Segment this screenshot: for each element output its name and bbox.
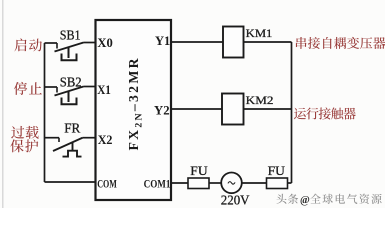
svg-text:KM2: KM2 (246, 93, 274, 107)
wire FU2 to right bus (288, 182, 292, 184)
svg-text:220V: 220V (221, 194, 250, 208)
wire KM1 to right bus (244, 41, 292, 43)
wire X2 branch left (45, 137, 60, 139)
svg-text:Y2: Y2 (154, 103, 170, 117)
label run contactor (294, 107, 356, 119)
wire Y1 to KM1 (171, 41, 223, 43)
label baohu (protect) line2 (10, 139, 38, 152)
svg-text:FU: FU (190, 163, 208, 178)
svg-text:Y1: Y1 (155, 34, 170, 48)
label guozai (overload) line1 (11, 126, 39, 139)
watermark quanqiu dianqi ziyuan (310, 194, 381, 204)
svg-text:COM: COM (97, 177, 117, 191)
wire COM1 to FU1 (171, 182, 188, 184)
scan edge artifact (2, 0, 4, 208)
AC source tilde (228, 182, 235, 185)
pushbutton SB2 contact (55, 87, 96, 96)
PLC U1 FX2N-32MR box (96, 20, 172, 200)
svg-text:@: @ (300, 195, 310, 206)
label series autotransformer (296, 37, 385, 49)
svg-text:FU: FU (268, 163, 286, 178)
wire Y2 to KM2 (171, 108, 222, 110)
contactor coil KM2 (222, 94, 244, 125)
watermark toutiao (277, 194, 299, 204)
right bus wire (291, 42, 293, 183)
svg-text:KM1: KM1 (246, 26, 273, 40)
svg-text:X1: X1 (97, 83, 111, 97)
contactor coil KM1 (223, 27, 244, 58)
label qidong (start) (14, 38, 41, 51)
label tingzhi (stop) (14, 82, 42, 95)
wire COM branch (45, 181, 96, 183)
wire X1 branch left (45, 86, 58, 88)
svg-text:SB1: SB1 (60, 28, 81, 43)
wire KM2 to right bus (244, 108, 292, 110)
fuse FU1 (188, 178, 209, 189)
svg-text:COM1: COM1 (144, 177, 171, 191)
svg-text:X0: X0 (97, 36, 112, 50)
svg-text:FR: FR (64, 121, 81, 136)
svg-text:X2: X2 (98, 133, 113, 147)
svg-text:SB2: SB2 (60, 75, 82, 90)
thermal relay FR element (63, 143, 82, 157)
wire source to FU2 (242, 182, 267, 184)
left bus wire (44, 43, 46, 182)
pushbutton SB1 contact (55, 43, 96, 52)
pushbutton SB1 actuator (62, 47, 77, 61)
thermal relay FR contact (53, 138, 96, 151)
fuse FU2 (267, 178, 288, 189)
AC source 220V (221, 173, 242, 194)
pushbutton SB2 actuator (62, 91, 77, 105)
wire X0 branch left (45, 42, 58, 44)
wire FU1 to source (209, 182, 221, 184)
